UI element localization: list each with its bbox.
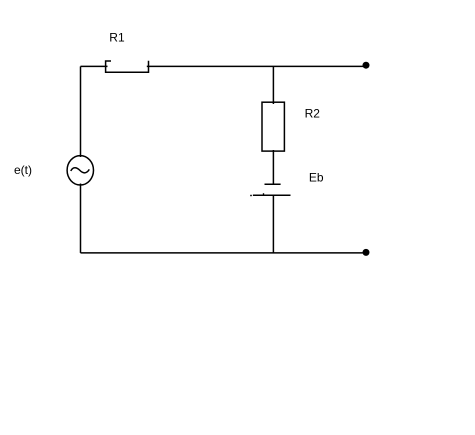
wire: [80, 66, 82, 157]
resistor R1: [106, 61, 149, 72]
wire: [272, 66, 274, 104]
svg-text:R1: R1: [109, 31, 125, 45]
wire: [81, 65, 108, 67]
resistor R2: [262, 102, 284, 151]
wire: [81, 252, 367, 254]
wire: [272, 150, 274, 184]
source e(t): [67, 156, 93, 185]
node top-right terminal: [363, 62, 370, 69]
svg-text:R2: R2: [305, 107, 321, 121]
battery Eb: [250, 184, 290, 196]
wire: [80, 184, 82, 253]
svg-text:e(t): e(t): [14, 163, 32, 177]
svg-text:Eb: Eb: [309, 171, 324, 185]
wire: [147, 65, 366, 67]
wire: [272, 195, 274, 253]
node bottom-right terminal: [363, 249, 370, 256]
